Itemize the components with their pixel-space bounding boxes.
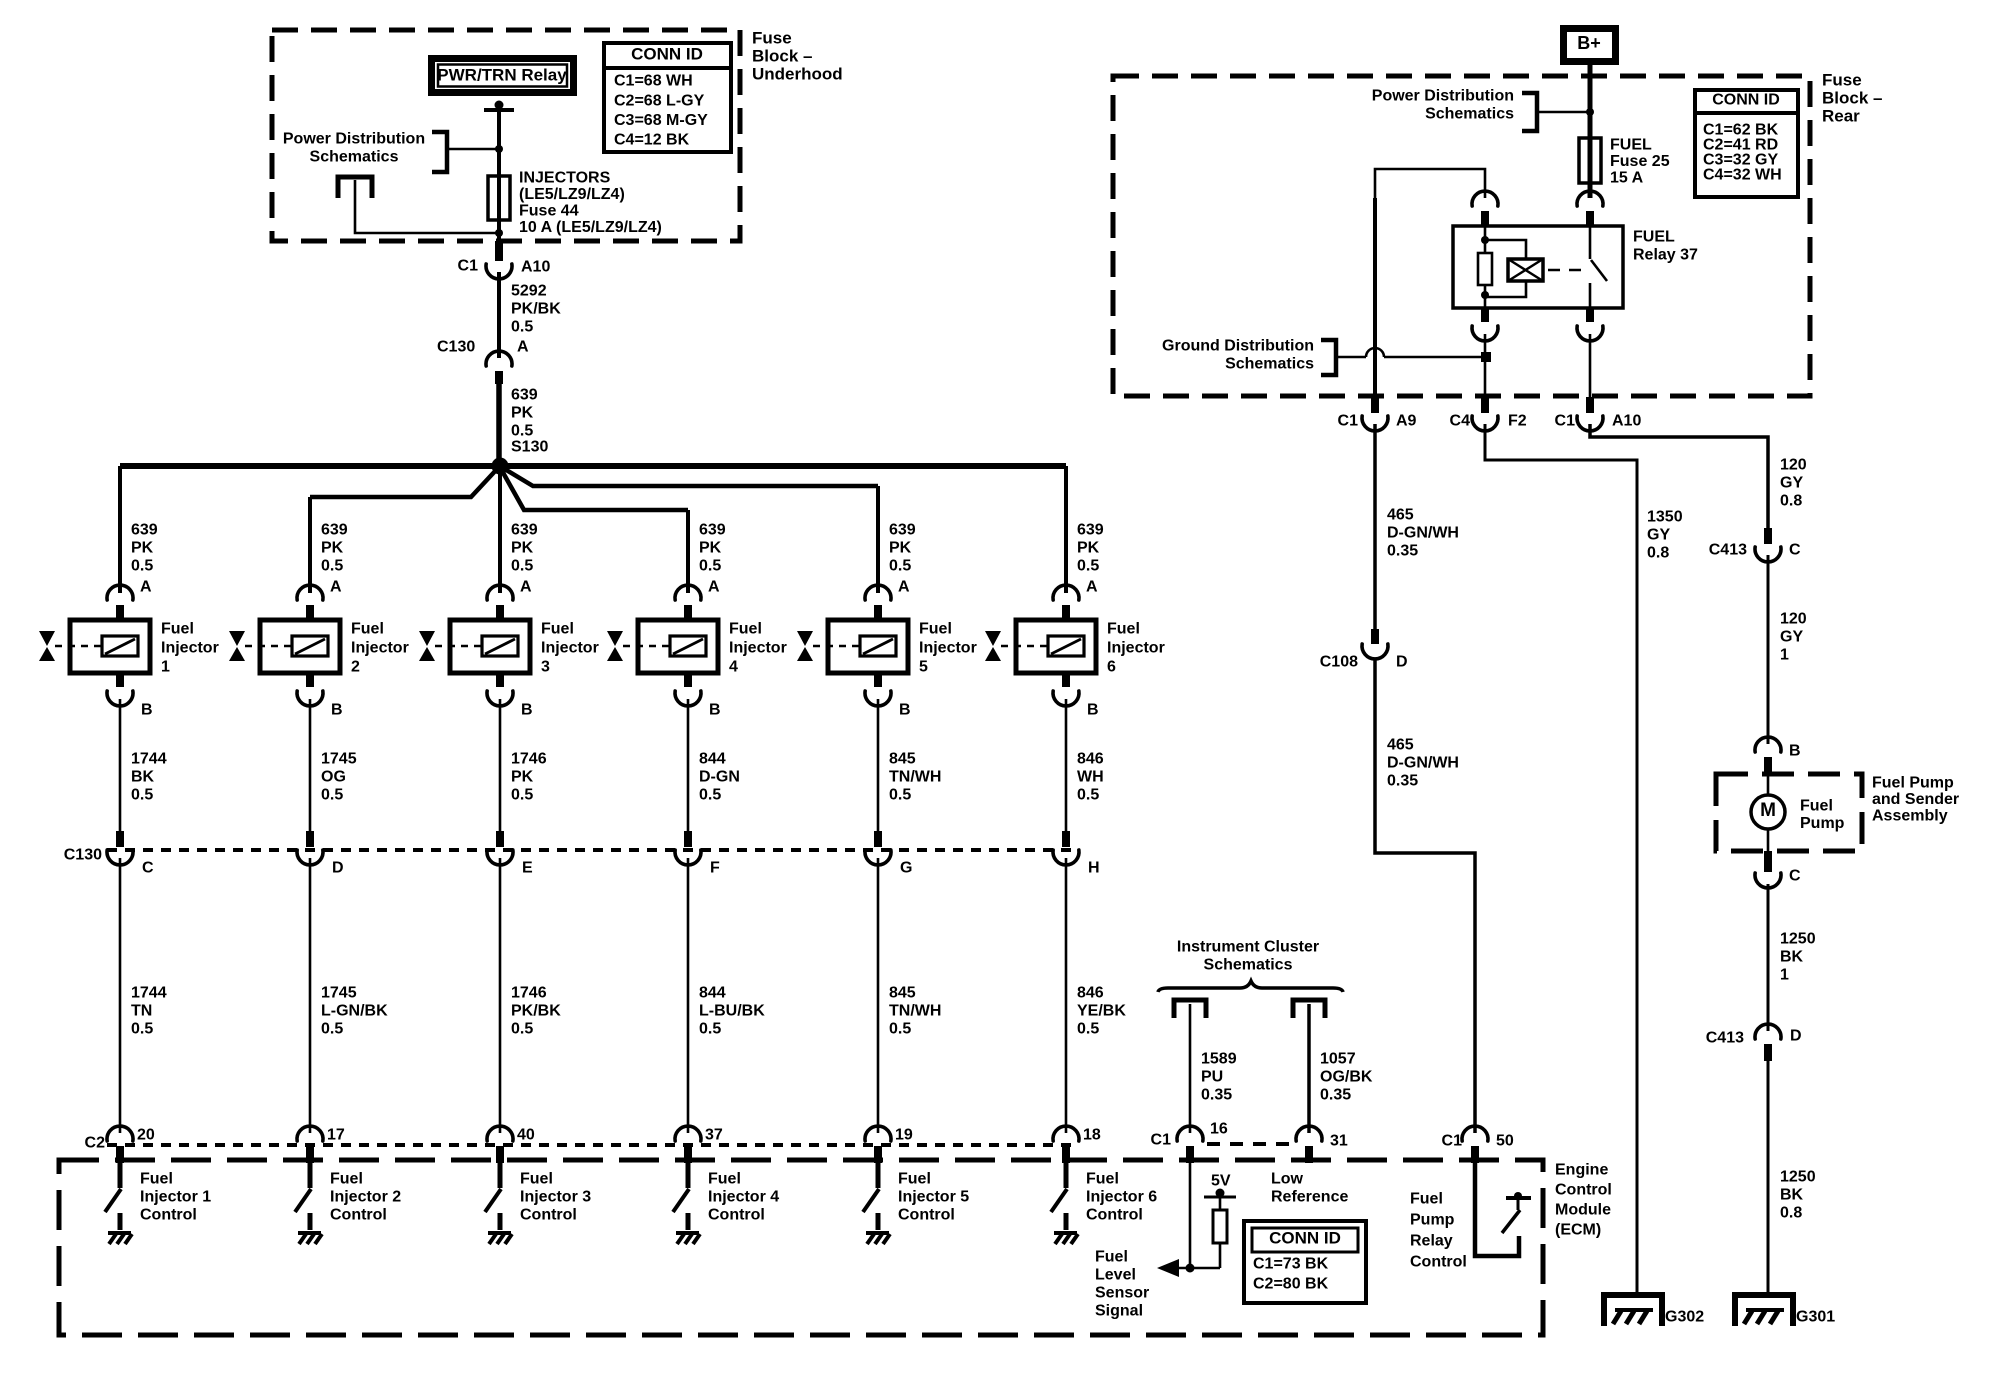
svg-text:B: B: [141, 702, 153, 719]
svg-text:A10: A10: [521, 259, 550, 276]
injector 6 pin A: [1053, 579, 1098, 621]
svg-text:0.5: 0.5: [889, 787, 911, 804]
svg-text:0.5: 0.5: [699, 558, 721, 575]
svg-text:465: 465: [1387, 737, 1414, 754]
fuel injector 2 body: [245, 620, 340, 673]
svg-text:845: 845: [889, 985, 916, 1002]
svg-text:C4=32 WH: C4=32 WH: [1703, 167, 1782, 184]
label Fuel Injector 2: [351, 621, 409, 676]
label 639 PK 0.5 (injector 6): [1077, 522, 1104, 575]
5V pullup resistor: [1213, 1193, 1227, 1268]
label 1250 BK 1: [1780, 931, 1816, 984]
wire pin16 to fuel level sensor signal: [1176, 1163, 1220, 1273]
connector C130 pin F: [675, 831, 720, 877]
svg-text:0.5: 0.5: [1077, 1021, 1099, 1038]
label 1745 OG 0.5: [321, 751, 357, 804]
svg-text:1589: 1589: [1201, 1051, 1237, 1068]
svg-text:0.5: 0.5: [321, 558, 343, 575]
svg-text:0.5: 0.5: [1077, 558, 1099, 575]
wire continuation to feed: [355, 180, 503, 237]
injector 2 pin A: [297, 579, 342, 621]
ground distribution schematics label: [1162, 338, 1314, 373]
svg-text:1: 1: [1780, 647, 1789, 664]
svg-text:Injector 3: Injector 3: [520, 1189, 591, 1206]
wire feed injector 6: [1064, 466, 1068, 593]
fuse 44 label: [519, 170, 662, 237]
svg-text:846: 846: [1077, 985, 1104, 1002]
connector C1 pin A10 (underhood exit): [458, 241, 551, 279]
svg-text:GY: GY: [1780, 475, 1803, 492]
engine control module dashed box: [59, 1160, 1543, 1335]
svg-text:GY: GY: [1780, 629, 1803, 646]
wire to ECM pin 18: [1065, 858, 1068, 1133]
connector C130 pin E: [487, 831, 533, 877]
label 1057 OG/BK 0.35: [1320, 1051, 1373, 1104]
svg-text:Fuse: Fuse: [1822, 70, 1862, 89]
svg-text:5: 5: [919, 659, 928, 676]
svg-text:0.5: 0.5: [131, 558, 153, 575]
svg-text:BK: BK: [131, 769, 155, 786]
injector 6 nozzle bowtie: [985, 631, 1001, 661]
svg-text:and Sender: and Sender: [1872, 791, 1959, 808]
svg-text:C1=68 WH: C1=68 WH: [614, 73, 693, 90]
wire feed injector 5: [876, 486, 880, 593]
5V supply symbol: [1204, 1173, 1236, 1198]
svg-text:Fuel: Fuel: [541, 621, 574, 638]
svg-text:Pump: Pump: [1800, 815, 1845, 832]
svg-text:Injector 2: Injector 2: [330, 1189, 401, 1206]
injector 6 pin B: [1053, 673, 1099, 719]
branch to injector 4: [501, 469, 688, 510]
svg-text:Fuel: Fuel: [1107, 621, 1140, 638]
connector dashes pins 16-31: [1207, 1142, 1295, 1146]
wire to ECM pin 40: [499, 858, 502, 1133]
CONN ID table ECM: [1244, 1221, 1366, 1303]
label Instrument Cluster Schematics: [1177, 939, 1319, 974]
svg-text:Schematics: Schematics: [1425, 106, 1514, 123]
svg-text:PU: PU: [1201, 1069, 1223, 1086]
svg-text:BK: BK: [1780, 1187, 1804, 1204]
svg-text:Injector: Injector: [351, 640, 409, 657]
injector 1 nozzle bowtie: [39, 631, 55, 661]
svg-text:Power Distribution: Power Distribution: [1372, 88, 1514, 105]
svg-text:Pump: Pump: [1410, 1212, 1455, 1229]
injector 2 pin B: [297, 673, 343, 719]
svg-text:PK: PK: [699, 540, 722, 557]
svg-text:C1: C1: [1555, 413, 1576, 430]
svg-text:Fuel: Fuel: [919, 621, 952, 638]
svg-text:639: 639: [699, 522, 726, 539]
svg-text:Schematics: Schematics: [310, 149, 399, 166]
svg-text:Fuel Pump: Fuel Pump: [1872, 775, 1954, 792]
label 120 GY 1: [1780, 611, 1807, 664]
svg-text:F2: F2: [1508, 413, 1527, 430]
svg-text:OG: OG: [321, 769, 346, 786]
relay pin 85 connector: [1472, 308, 1498, 341]
label Fuel Injector 3: [541, 621, 599, 676]
svg-text:C1: C1: [1151, 1132, 1172, 1149]
svg-text:Control: Control: [708, 1207, 765, 1224]
fuel relay 37 box: [1453, 226, 1623, 308]
svg-text:PK: PK: [131, 540, 154, 557]
svg-text:1: 1: [1780, 967, 1789, 984]
svg-text:0.5: 0.5: [511, 319, 533, 336]
fuse 44: [488, 176, 510, 220]
label 1746 PK/BK 0.5: [511, 985, 561, 1038]
svg-text:D-GN: D-GN: [699, 769, 740, 786]
svg-text:Injector: Injector: [1107, 640, 1165, 657]
svg-text:C2=80 BK: C2=80 BK: [1253, 1276, 1329, 1293]
svg-text:A: A: [898, 579, 910, 596]
svg-text:639: 639: [889, 522, 916, 539]
injector 5 nozzle bowtie: [797, 631, 813, 661]
injector 5 pin A: [865, 579, 910, 621]
connector C130 pin H: [1053, 831, 1100, 877]
fuel injector 3 body: [435, 620, 530, 673]
bracket ground distribution: [1321, 340, 1336, 375]
svg-text:CONN ID: CONN ID: [1269, 1228, 1341, 1247]
svg-text:G302: G302: [1665, 1309, 1704, 1326]
label Fuel Injector 5 Control: [898, 1171, 969, 1224]
label Fuel Injector 2 Control: [330, 1171, 401, 1224]
svg-text:1746: 1746: [511, 751, 547, 768]
label Engine Control Module (ECM): [1555, 1162, 1612, 1239]
svg-text:0.5: 0.5: [699, 1021, 721, 1038]
ECM pin 17: [297, 1126, 345, 1163]
svg-text:PK/BK: PK/BK: [511, 301, 561, 318]
wire bracket to B+ feed: [1537, 108, 1594, 116]
label 846 YE/BK 0.5: [1077, 985, 1126, 1038]
svg-text:D: D: [1790, 1028, 1802, 1045]
svg-text:Schematics: Schematics: [1225, 356, 1314, 373]
svg-text:5292: 5292: [511, 283, 547, 300]
svg-text:639: 639: [321, 522, 348, 539]
svg-text:1: 1: [161, 659, 170, 676]
relay coil box symbol: [1508, 259, 1543, 281]
label 1745 L-GN/BK 0.5: [321, 985, 388, 1038]
svg-text:1250: 1250: [1780, 1169, 1816, 1186]
svg-text:A10: A10: [1612, 413, 1641, 430]
connector C2 dotted line: [107, 1143, 1079, 1147]
svg-text:1744: 1744: [131, 751, 167, 768]
svg-text:Injector 4: Injector 4: [708, 1189, 779, 1206]
fuse block rear dashed box: [1113, 76, 1810, 396]
fuel pump pin C: [1755, 851, 1801, 888]
svg-text:0.5: 0.5: [511, 423, 533, 440]
wire injector 3 to C130: [499, 699, 502, 846]
ECM pin 31: [1296, 1126, 1348, 1163]
bracket power distribution (rear): [1522, 93, 1537, 131]
svg-text:0.8: 0.8: [1647, 545, 1669, 562]
svg-text:0.5: 0.5: [889, 558, 911, 575]
svg-text:0.5: 0.5: [699, 787, 721, 804]
svg-text:PK: PK: [889, 540, 912, 557]
svg-text:1250: 1250: [1780, 931, 1816, 948]
wire 465 D-GN/WH upper: [1373, 424, 1377, 631]
ECM pin 37: [675, 1126, 723, 1163]
continuation symbol cluster right: [1293, 1000, 1325, 1018]
ECM internal ground (injector 2): [298, 1233, 322, 1244]
wire to ECM pin 19: [877, 858, 880, 1133]
power distribution schematics label (rear): [1372, 88, 1514, 123]
connector C108 pin D: [1320, 629, 1408, 671]
wire ground distribution with hop: [1336, 348, 1491, 362]
label Fuel Pump Relay Control: [1410, 1191, 1467, 1271]
svg-text:A: A: [140, 579, 152, 596]
label 1744 TN 0.5: [131, 985, 167, 1038]
connector C413 pin D: [1706, 1024, 1802, 1061]
wire relay 30 to A10: [1589, 334, 1592, 397]
svg-text:120: 120: [1780, 611, 1807, 628]
svg-text:639: 639: [131, 522, 158, 539]
svg-text:PK: PK: [321, 540, 344, 557]
svg-text:C130: C130: [437, 339, 475, 356]
svg-text:OG/BK: OG/BK: [1320, 1069, 1373, 1086]
svg-text:TN/WH: TN/WH: [889, 1003, 941, 1020]
svg-text:Underhood: Underhood: [752, 64, 843, 83]
svg-text:PK: PK: [511, 540, 534, 557]
label 639 PK 0.5 (injector 1): [131, 522, 158, 575]
power distribution schematics label: [283, 131, 425, 166]
svg-text:D: D: [1396, 654, 1408, 671]
label 5292 PK/BK 0.5: [511, 283, 561, 336]
label Fuel Injector 3 Control: [520, 1171, 591, 1224]
svg-text:6: 6: [1107, 659, 1116, 676]
svg-text:Injector 1: Injector 1: [140, 1189, 211, 1206]
wire to ECM pin 20: [119, 858, 122, 1133]
svg-text:Fuel: Fuel: [520, 1171, 553, 1188]
label Fuel Pump and Sender Assembly: [1872, 775, 1959, 825]
svg-text:B: B: [709, 702, 721, 719]
ECM pin 18: [1053, 1126, 1101, 1163]
fuel pump and sender dashed box: [1716, 774, 1862, 851]
connector C130 pin D: [297, 831, 344, 877]
injector 3 pin A: [487, 579, 532, 621]
svg-text:19: 19: [895, 1127, 913, 1144]
fuel level sensor arrow: [1157, 1259, 1179, 1277]
branch to injector 5: [503, 468, 878, 486]
svg-text:1744: 1744: [131, 985, 167, 1002]
svg-text:C1: C1: [458, 258, 479, 275]
svg-text:0.8: 0.8: [1780, 1205, 1802, 1222]
relay coil branch: [1478, 226, 1526, 308]
label 120 GY 0.8: [1780, 457, 1807, 510]
wire injector 6 to C130: [1065, 699, 1068, 846]
svg-text:Fuse 25: Fuse 25: [1610, 153, 1670, 170]
svg-text:Relay 37: Relay 37: [1633, 247, 1698, 264]
svg-text:A: A: [708, 579, 720, 596]
injector 1 pin B: [107, 673, 153, 719]
svg-text:Injector: Injector: [919, 640, 977, 657]
svg-text:A: A: [330, 579, 342, 596]
svg-text:639: 639: [1077, 522, 1104, 539]
battery B+ box: [1560, 25, 1619, 65]
svg-text:4: 4: [729, 659, 738, 676]
svg-text:BK: BK: [1780, 949, 1804, 966]
label Fuse Block - Underhood: [752, 28, 843, 83]
svg-text:Fuse 44: Fuse 44: [519, 203, 579, 220]
fuel injector 4 body: [623, 620, 718, 673]
label 639 PK 0.5: [511, 387, 538, 440]
relay output terminal: [484, 101, 514, 111]
svg-text:M: M: [1760, 800, 1776, 821]
svg-text:B: B: [331, 702, 343, 719]
fuel injector 1 body: [55, 620, 150, 673]
svg-text:L-GN/BK: L-GN/BK: [321, 1003, 388, 1020]
label C2: [85, 1135, 106, 1152]
wire B+ to fuse 25: [1588, 65, 1593, 198]
wire 1057 OG/BK: [1307, 1004, 1311, 1133]
svg-text:639: 639: [511, 522, 538, 539]
svg-text:Engine: Engine: [1555, 1162, 1608, 1179]
svg-text:0.5: 0.5: [511, 787, 533, 804]
ECM internal ground (injector 5): [866, 1233, 890, 1244]
svg-text:Control: Control: [1555, 1182, 1612, 1199]
label S130: [511, 439, 548, 456]
fuse block underhood dashed box: [272, 30, 740, 241]
wire 1250 BK 0.8: [1767, 1061, 1770, 1295]
svg-text:C1=73 BK: C1=73 BK: [1253, 1256, 1329, 1273]
fuel injector 6 body: [1001, 620, 1096, 673]
label 846 WH 0.5: [1077, 751, 1104, 804]
ECM internal ground (injector 4): [676, 1233, 700, 1244]
svg-text:15 A: 15 A: [1610, 170, 1644, 187]
relay coil-switch dashed link: [1548, 269, 1585, 272]
wire injector 1 to C130: [119, 699, 122, 846]
wire 1250 BK 1: [1767, 884, 1770, 1031]
ground G301: [1735, 1295, 1835, 1326]
label 1746 PK 0.5: [511, 751, 547, 804]
svg-text:Block –: Block –: [752, 46, 812, 65]
label 639 PK 0.5 (injector 3): [511, 522, 538, 575]
svg-text:G301: G301: [1796, 1309, 1835, 1326]
label Fuel Injector 1 Control: [140, 1171, 211, 1224]
svg-text:C: C: [1789, 542, 1801, 559]
label Fuse Block - Rear: [1822, 70, 1882, 125]
svg-text:Control: Control: [898, 1207, 955, 1224]
svg-text:120: 120: [1780, 457, 1807, 474]
svg-text:G: G: [900, 860, 912, 877]
svg-text:Module: Module: [1555, 1202, 1611, 1219]
splice S130: [492, 458, 509, 475]
wire relay coil feed from A9 branch: [1375, 169, 1485, 198]
branch to injector 2: [310, 468, 498, 497]
svg-text:Control: Control: [1410, 1254, 1467, 1271]
label Fuel Level Sensor Signal: [1095, 1249, 1149, 1320]
wire to ECM pin 37: [687, 858, 690, 1133]
svg-text:Injector 5: Injector 5: [898, 1189, 969, 1206]
svg-text:D-GN/WH: D-GN/WH: [1387, 525, 1459, 542]
connector C130 dotted line: [107, 848, 1079, 852]
svg-text:Power Distribution: Power Distribution: [283, 131, 425, 148]
svg-text:C: C: [1789, 868, 1801, 885]
injector 2 nozzle bowtie: [229, 631, 245, 661]
label 844 L-BU/BK 0.5: [699, 985, 765, 1038]
ECM pin 20: [107, 1126, 155, 1163]
wire injector 4 to C130: [687, 699, 690, 846]
svg-text:0.5: 0.5: [131, 787, 153, 804]
wire 1350 GY to G302: [1485, 424, 1637, 1295]
svg-text:846: 846: [1077, 751, 1104, 768]
label 639 PK 0.5 (injector 2): [321, 522, 348, 575]
svg-text:C130: C130: [64, 847, 102, 864]
fuel injector 4 control switch: [673, 1162, 689, 1230]
svg-text:C413: C413: [1709, 542, 1747, 559]
svg-text:PK: PK: [511, 405, 534, 422]
svg-text:YE/BK: YE/BK: [1077, 1003, 1126, 1020]
svg-text:Ground Distribution: Ground Distribution: [1162, 338, 1314, 355]
wire 465 D-GN/WH lower: [1375, 658, 1475, 1133]
svg-text:50: 50: [1496, 1133, 1514, 1150]
fuel injector 1 control switch: [105, 1162, 121, 1230]
label 845 TN/WH 0.5: [889, 985, 941, 1038]
injector 3 nozzle bowtie: [419, 631, 435, 661]
feed bus from S130: [120, 463, 1066, 469]
svg-text:CONN ID: CONN ID: [631, 44, 703, 63]
fuel pump motor: [1751, 775, 1785, 851]
svg-text:Fuel: Fuel: [330, 1171, 363, 1188]
label Fuel Injector 1: [161, 621, 219, 676]
svg-text:S130: S130: [511, 439, 548, 456]
svg-text:PK: PK: [511, 769, 534, 786]
wire bracket to feed: [447, 145, 503, 153]
svg-text:Fuel: Fuel: [708, 1171, 741, 1188]
injector 3 pin B: [487, 673, 533, 719]
label Fuel Pump: [1800, 798, 1845, 833]
svg-text:Instrument Cluster: Instrument Cluster: [1177, 939, 1319, 956]
svg-text:A: A: [520, 579, 532, 596]
PWR/TRN Relay box: [428, 55, 577, 96]
svg-text:F: F: [710, 860, 720, 877]
fuel injector 5 body: [813, 620, 908, 673]
svg-text:(ECM): (ECM): [1555, 1222, 1601, 1239]
connector C4 pin F2: [1450, 397, 1527, 431]
svg-text:WH: WH: [1077, 769, 1104, 786]
svg-text:A: A: [1086, 579, 1098, 596]
svg-text:C3=68 M-GY: C3=68 M-GY: [614, 112, 708, 129]
svg-text:Fuel: Fuel: [898, 1171, 931, 1188]
svg-text:1350: 1350: [1647, 509, 1683, 526]
ECM internal ground (injector 3): [488, 1233, 512, 1244]
svg-text:0.5: 0.5: [1077, 787, 1099, 804]
label 639 PK 0.5 (injector 5): [889, 522, 916, 575]
svg-text:B: B: [521, 702, 533, 719]
svg-text:1745: 1745: [321, 751, 357, 768]
relay switch: [1590, 226, 1607, 308]
label 1589 PU 0.35: [1201, 1051, 1237, 1104]
wire feed injector 2: [308, 497, 312, 593]
connector C413 pin C: [1709, 528, 1801, 562]
svg-text:Fuse: Fuse: [752, 28, 792, 47]
svg-text:0.35: 0.35: [1201, 1087, 1232, 1104]
label 844 D-GN 0.5: [699, 751, 740, 804]
injector 4 nozzle bowtie: [607, 631, 623, 661]
svg-text:2: 2: [351, 659, 360, 676]
wire injector 5 to C130: [877, 699, 880, 846]
wire PWR/TRN feed down through fuse 44: [497, 105, 501, 261]
wire 639 PK to splice: [496, 382, 502, 466]
svg-text:10 A (LE5/LZ9/LZ4): 10 A (LE5/LZ9/LZ4): [519, 219, 662, 236]
svg-text:PWR/TRN Relay: PWR/TRN Relay: [437, 65, 567, 84]
svg-text:FUEL: FUEL: [1633, 229, 1675, 246]
connector C1 pin A10 (rear): [1555, 397, 1642, 431]
svg-text:0.5: 0.5: [511, 558, 533, 575]
svg-text:0.5: 0.5: [321, 1021, 343, 1038]
wire 5292 PK/BK: [497, 272, 501, 358]
label Fuel Injector 4: [729, 621, 787, 676]
svg-text:Reference: Reference: [1271, 1189, 1348, 1206]
label Fuel Injector 5: [919, 621, 977, 676]
